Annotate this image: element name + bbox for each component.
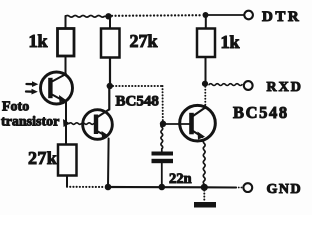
svg-text:Foto: Foto (2, 100, 29, 115)
phototransistor Q1 collector stroke (52, 74, 66, 82)
ground symbol bar (194, 202, 216, 208)
capacitor C1 top plate (152, 152, 174, 156)
phototransistor Q1 base bar (48, 78, 52, 98)
terminal RXD circle (244, 81, 253, 90)
node ground rail junction Q3 emitter (201, 184, 208, 191)
transistor Q2 collector stroke (96, 110, 109, 119)
svg-text:27k: 27k (28, 148, 57, 168)
node junction Q3 base / C1 (160, 121, 166, 127)
svg-text:transistor: transistor (1, 115, 59, 130)
emitter arrow on wire at node (63, 119, 70, 127)
light arrow 2 into Q1 (26, 90, 33, 92)
wire from rail down to R1 (65, 16, 67, 29)
svg-text:RXD: RXD (267, 80, 303, 95)
wire Q2 emitter down to ground rail (107, 139, 110, 188)
transistor Q2 base bar (94, 115, 98, 135)
wire to RXD terminal (209, 84, 242, 86)
terminal GND circle (243, 183, 252, 192)
node top rail junction at 27k (105, 13, 111, 19)
transistor Q2 body circle (83, 110, 113, 140)
node top rail junction at right 1k (203, 12, 209, 18)
transistor Q3 body circle (180, 105, 216, 141)
transistor Q2 emitter stroke (96, 131, 106, 137)
wire Q1 emitter node to Q2 base (69, 123, 94, 125)
node ground rail junction Q2 emitter (105, 184, 112, 191)
wire Q2 collector up to node (108, 86, 110, 110)
capacitor C1 bottom wire (161, 163, 163, 187)
wire Q1 emitter down (65, 101, 67, 145)
svg-text:BC548: BC548 (233, 103, 289, 122)
node junction R2 / Q2 collector (107, 83, 113, 89)
wire ground rail to GND terminal (204, 186, 236, 188)
wire ground rail middle segment (108, 186, 204, 189)
wire down to Q3 base node (162, 86, 164, 121)
svg-text:27k: 27k (130, 31, 158, 51)
svg-text:1k: 1k (221, 32, 240, 52)
node junction RXD / Q3 collector (202, 81, 208, 87)
capacitor C1 bottom plate (152, 159, 174, 163)
wire RXD node down to Q3 collector (204, 84, 206, 108)
wire from rail down to R2 (109, 16, 111, 29)
svg-text:22n: 22n (169, 171, 192, 187)
svg-text:DTR: DTR (262, 9, 301, 25)
svg-text:1k: 1k (29, 31, 48, 51)
wire top rail dotted middle segment (112, 14, 202, 17)
wire R3 bottom to RXD node (205, 57, 207, 84)
wire Q3 emitter down to ground rail (203, 140, 205, 184)
wire Q3 emitter node down to ground symbol (203, 191, 205, 203)
wire top rail to DTR (206, 14, 245, 16)
wire from rail down to R3 (205, 15, 207, 29)
phototransistor Q1 emitter arrowhead (59, 95, 66, 103)
resistor R3 1k body (197, 29, 215, 58)
light arrow 1 into Q1 (27, 83, 34, 85)
phototransistor Q1 body circle (41, 72, 73, 104)
resistor R2 27k body (101, 29, 120, 58)
transistor Q3 collector stroke (193, 108, 205, 117)
transistor Q2 emitter arrowhead (102, 131, 109, 138)
terminal DTR circle (244, 11, 253, 20)
resistor R1 1k body (58, 29, 75, 57)
resistor R4 27k body (58, 145, 77, 176)
wire R4 bottom to ground rail (66, 176, 68, 187)
svg-text:BC548: BC548 (116, 93, 159, 109)
wire top rail left segment (66, 15, 109, 17)
wire R2 bottom to node (109, 58, 111, 87)
transistor Q3 base bar (189, 113, 194, 135)
phototransistor Q1 emitter stroke (52, 95, 63, 101)
capacitor C1 top wire (161, 124, 163, 152)
wire ground rail dotted left segment (67, 186, 105, 188)
wire R1 bottom to phototransistor collector (65, 56, 67, 75)
svg-text:GND: GND (267, 182, 303, 197)
node ground rail junction C1 (159, 184, 166, 191)
wire node to Q3 base (163, 123, 190, 125)
wire node R2/Q2 dotted to right (113, 85, 163, 87)
transistor Q3 emitter arrowhead (198, 132, 206, 140)
transistor Q3 emitter stroke (193, 131, 203, 137)
